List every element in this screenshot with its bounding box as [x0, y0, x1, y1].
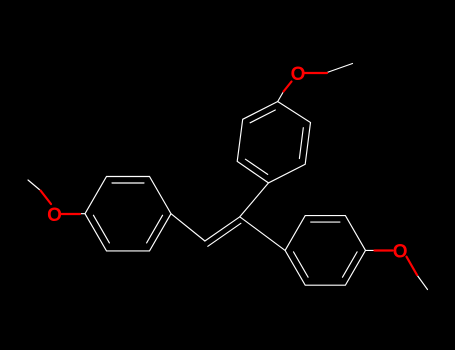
- wire: C2=C1 double bond main line: [205, 217, 240, 241]
- wire: white half of O-CH3 bond left: [28, 180, 41, 191]
- wire: bond C1 to right ring: [240, 217, 285, 251]
- left ring inner double bond top: [112, 182, 144, 184]
- right ring inner double bond top: [311, 221, 340, 223]
- left ring inner double bond lower-left: [93, 215, 109, 243]
- wire: white half of O-ring bond left: [80, 213, 85, 215]
- right benzene ring: [285, 216, 365, 286]
- top ring inner double bond right: [299, 128, 303, 159]
- wire: bond left ring to C2: [171, 214, 205, 241]
- wire: red half of O-CH3 bond top: [305, 72, 328, 74]
- wire: C2=C1 double bond second line: [208, 223, 241, 246]
- right ring inner double bond lower-right: [343, 252, 358, 277]
- wire: white half of O-CH3 bond top: [327, 64, 353, 73]
- wire: red half of O-ring bond left: [61, 213, 80, 215]
- left benzene ring: [85, 177, 171, 251]
- wire: white half of O-ring bond top: [278, 92, 284, 102]
- svg-text:O: O: [47, 205, 62, 226]
- wire: red half of O-CH3 bond left: [41, 191, 52, 205]
- top benzene ring: [237, 102, 310, 183]
- wire: red half of O-CH3 bond right: [407, 257, 418, 275]
- left ring inner double bond lower-right: [147, 215, 163, 243]
- svg-text:O: O: [393, 242, 408, 263]
- top ring inner double bond upper-left: [250, 110, 275, 123]
- right ring inner double bond lower-left: [294, 252, 309, 277]
- wire: white half of O-CH3 bond right: [417, 275, 428, 290]
- wire: red half of O-ring bond top: [284, 82, 292, 92]
- wire: bond C1 to top ring: [240, 183, 269, 217]
- wire: red half of O-ring bond right: [375, 249, 393, 251]
- wire: white half of O-ring bond right: [366, 249, 375, 251]
- svg-text:O: O: [291, 64, 306, 85]
- top ring inner double bond lower-left: [245, 159, 267, 174]
